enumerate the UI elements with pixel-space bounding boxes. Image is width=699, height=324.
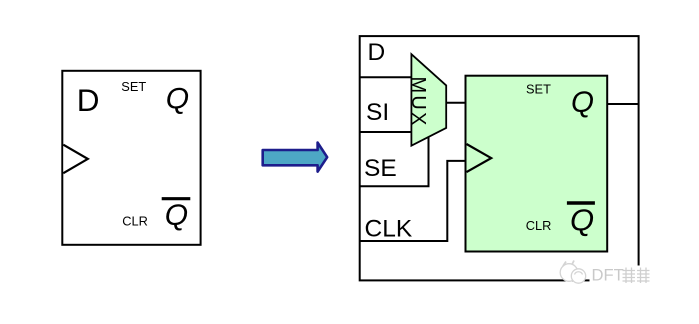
svg-text:SET: SET xyxy=(526,82,551,97)
wire CLK to FF clock pin xyxy=(360,161,466,241)
svg-text:D: D xyxy=(368,39,386,66)
output label Q-bar (U2) xyxy=(567,203,595,238)
watermark logo xyxy=(560,261,586,284)
wire SE to MUX select xyxy=(360,138,429,187)
watermark text DFT精英 xyxy=(592,265,650,284)
svg-text:SE: SE xyxy=(364,155,397,182)
svg-text:D: D xyxy=(77,82,100,118)
svg-text:Q: Q xyxy=(165,199,188,232)
svg-text:Q: Q xyxy=(571,86,594,119)
svg-text:Q: Q xyxy=(166,83,189,116)
svg-text:CLR: CLR xyxy=(122,213,148,228)
flip-flop U2 (scan FF, green) xyxy=(466,76,608,252)
svg-text:CLK: CLK xyxy=(365,216,413,243)
svg-text:MUX: MUX xyxy=(407,77,429,128)
svg-text:CLR: CLR xyxy=(526,218,552,233)
wire D to MUX input 0 xyxy=(360,76,413,78)
scan flip-flop boundary box xyxy=(360,36,639,280)
wire MUX output to FF D input xyxy=(446,102,465,104)
mux M1 xyxy=(411,54,446,146)
wire Q output to boundary xyxy=(607,103,638,105)
svg-text:Q: Q xyxy=(570,203,594,238)
watermark white backdrop xyxy=(590,266,653,284)
transformation arrow xyxy=(263,143,328,172)
clock input triangle (U1) xyxy=(63,145,88,174)
wire SI to MUX input 1 xyxy=(360,131,413,133)
flip-flop U1 (plain D flip-flop, left) xyxy=(62,71,200,245)
output label Q-bar (U1) xyxy=(162,199,191,232)
clock input triangle (U2) xyxy=(467,144,492,172)
svg-text:DFT: DFT xyxy=(592,265,624,284)
svg-text:SET: SET xyxy=(121,79,146,94)
svg-text:SI: SI xyxy=(366,99,389,126)
